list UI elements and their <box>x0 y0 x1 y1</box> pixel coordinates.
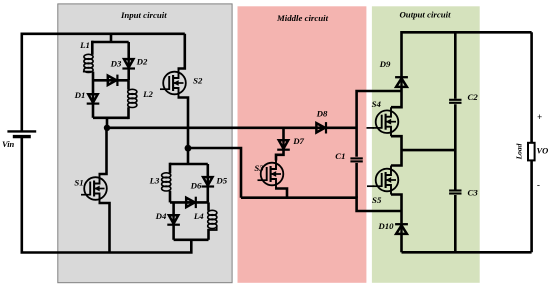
svg-text:Vin: Vin <box>2 139 15 149</box>
capacitor C3 <box>449 191 461 194</box>
wire: S2 source <box>178 98 189 149</box>
wire: cell1 middle horizontal <box>93 79 129 82</box>
wire: L4 lower stub <box>207 229 210 240</box>
svg-text:L3: L3 <box>149 175 160 185</box>
svg-text:Middle circuit: Middle circuit <box>276 13 329 23</box>
wire: cell2 middle horizontal <box>170 201 208 204</box>
wire: S3 source <box>275 189 287 198</box>
wire: load branch upper <box>530 32 533 143</box>
wire: L3 upper stub <box>169 163 172 174</box>
wire: C1 bottom stub <box>355 163 358 198</box>
svg-text:C3: C3 <box>468 188 479 198</box>
svg-text:D2: D2 <box>136 56 148 66</box>
diode D1 <box>87 94 100 103</box>
wire: D7 to S3 drain <box>276 149 284 161</box>
wire: D10 anode to bottom rail <box>400 234 403 252</box>
wire: D4 upper stub <box>172 202 175 216</box>
svg-text:L4: L4 <box>193 211 204 221</box>
diode D5 <box>202 177 215 186</box>
wire: S1 source <box>99 203 110 253</box>
svg-text:D3: D3 <box>110 58 122 68</box>
wire: output top rail <box>402 32 532 76</box>
wire: C3 bottom stub <box>454 195 457 252</box>
wire: cell1 right upper <box>127 42 130 60</box>
svg-text:S3: S3 <box>254 163 264 173</box>
svg-text:+: + <box>537 112 542 122</box>
transistor S4 <box>373 107 399 136</box>
wire: cell2 top horizontal <box>170 163 208 166</box>
wire: cell1 top horizontal <box>92 41 129 44</box>
wire: cell1 left lower <box>92 72 95 94</box>
wire: S4 gate stub extension <box>367 127 375 129</box>
wire: C1 top branch <box>357 91 402 157</box>
wire: cell1 bottom horizontal <box>93 117 129 120</box>
inductor L3 <box>162 173 171 191</box>
capacitor C2 <box>449 100 461 103</box>
diode D8 <box>316 122 326 133</box>
wire: S5 source <box>391 195 402 224</box>
svg-text:VO: VO <box>537 146 549 156</box>
svg-text:D6: D6 <box>190 180 202 190</box>
transistor S1 <box>81 174 107 203</box>
wire: D5 to middle horizontal <box>207 186 210 203</box>
svg-text:D9: D9 <box>379 59 391 69</box>
inductor L2 <box>128 89 137 107</box>
wire: output bottom rail <box>402 251 532 254</box>
inductor L4 <box>208 210 217 228</box>
diode D4 <box>167 215 180 224</box>
wire: S5 gate stub extension <box>367 185 374 187</box>
wire: D2 to middle horizontal <box>127 68 130 81</box>
diode D2 <box>122 59 135 68</box>
svg-text:S2: S2 <box>193 76 203 86</box>
wire: L4 coil exit tail <box>209 226 217 230</box>
wire: S1 drain <box>99 128 107 174</box>
svg-text:D1: D1 <box>74 90 86 100</box>
load resistor <box>528 143 535 161</box>
input circuit box <box>58 4 232 283</box>
diode D10 <box>395 224 408 234</box>
wire: cell1 bottom tee <box>106 118 109 128</box>
capacitor C1 <box>350 158 362 161</box>
node: cell2 input junction <box>185 145 192 152</box>
wire: D9 cathode to S4 drain <box>391 87 402 107</box>
diode D9 <box>395 77 408 87</box>
wire: L2 lower stub <box>127 107 130 119</box>
svg-text:L2: L2 <box>142 89 153 99</box>
svg-text:D5: D5 <box>215 175 227 185</box>
svg-text:D8: D8 <box>316 109 328 119</box>
wire: S2 drain <box>178 34 185 69</box>
transistor S5 <box>373 166 399 195</box>
svg-text:-: - <box>537 180 540 190</box>
diode D7 <box>277 140 290 149</box>
wire: C2 bottom to C3 top <box>454 104 457 190</box>
wire: cell2 top tee <box>187 148 190 164</box>
svg-text:L1: L1 <box>79 40 90 50</box>
wire: L4 upper stub <box>207 202 210 210</box>
wire: L3 lower stub <box>169 191 172 203</box>
wire: D4 to cell2 bottom <box>172 224 175 240</box>
transistor S3 <box>258 160 284 189</box>
svg-text:S1: S1 <box>74 177 83 187</box>
wire: C2 top stub <box>454 32 457 99</box>
battery Vin <box>7 131 36 136</box>
output circuit box <box>372 6 480 283</box>
diode D6 <box>186 197 196 208</box>
wire: cell1 top tee <box>110 34 113 42</box>
wire: D7 anode stub <box>282 128 285 141</box>
wire: input bottom rail <box>22 137 192 253</box>
transistor S2 <box>160 69 186 98</box>
svg-text:D4: D4 <box>155 211 167 221</box>
inductor L1 <box>84 54 93 72</box>
svg-text:Input circuit: Input circuit <box>120 10 167 20</box>
wire: L2 upper stub <box>127 80 130 89</box>
wire: input top rail <box>22 34 185 131</box>
svg-text:D7: D7 <box>292 136 304 146</box>
svg-text:C1: C1 <box>335 151 345 161</box>
wire: main horizontal to middle circuit <box>107 127 357 130</box>
svg-text:Load: Load <box>515 143 524 160</box>
wire: L1 coil exit tail <box>83 71 93 73</box>
wire: junction to S3 branch <box>188 148 241 198</box>
wire: mid tee to capacitor bank <box>402 149 456 152</box>
wire: D5 upper stub <box>207 164 210 178</box>
wire: D1 to cell1 bottom <box>92 103 95 118</box>
wire: S4 source to S5 drain <box>391 136 402 165</box>
wire: cell1 left upper <box>91 41 94 55</box>
wire: S3 source rail to C1 bottom <box>241 198 402 211</box>
svg-text:S4: S4 <box>372 99 382 109</box>
wire: cell2 bottom horizontal <box>174 239 209 242</box>
svg-text:D10: D10 <box>377 221 394 231</box>
svg-text:Output circuit: Output circuit <box>399 10 451 20</box>
svg-text:S5: S5 <box>372 195 382 205</box>
middle circuit box <box>238 6 367 283</box>
diode D3 <box>108 75 118 86</box>
node: cell1 output junction <box>104 125 110 131</box>
wire: load branch lower <box>530 160 533 252</box>
svg-text:C2: C2 <box>468 92 479 102</box>
